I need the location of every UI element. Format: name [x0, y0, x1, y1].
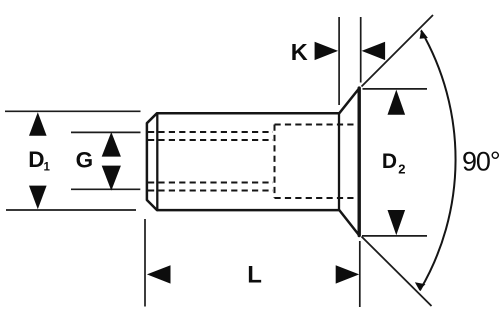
- svg-text:2: 2: [398, 161, 405, 176]
- svg-text:G: G: [76, 148, 94, 173]
- svg-text:D: D: [28, 147, 44, 172]
- svg-text:1: 1: [44, 162, 51, 174]
- svg-text:D: D: [382, 150, 397, 173]
- svg-text:L: L: [247, 262, 262, 289]
- svg-text:90°: 90°: [462, 147, 500, 177]
- svg-text:K: K: [291, 39, 308, 65]
